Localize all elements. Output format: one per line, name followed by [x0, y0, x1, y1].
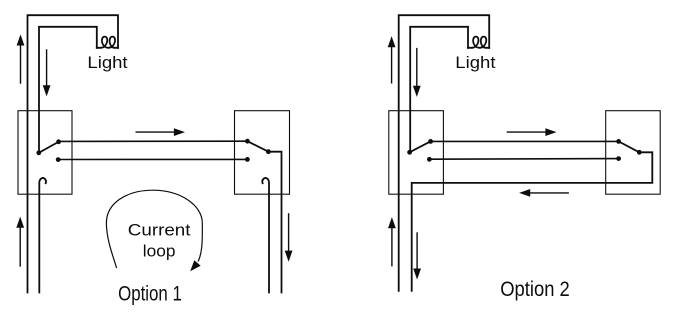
switch SW1 terminal T2 [56, 157, 61, 162]
wire: switched live from SW1 common up to lamp (inner), Option 1 [39, 27, 97, 153]
switch box SW4 [606, 111, 661, 195]
wire: bottom traveller between SW1 and SW2, Option 1 [58, 158, 247, 160]
switch SW1 common pole [36, 150, 41, 155]
switch SW4 terminal T2 [616, 156, 621, 161]
switch box SW2 [235, 111, 290, 195]
switch SW3 terminal T2 [427, 157, 432, 162]
switch SW2 common pole [266, 149, 271, 154]
switch SW3 blade [410, 141, 431, 152]
svg-text:Option 1: Option 1 [118, 283, 182, 306]
arrow: current up beside feed (top left), Option 2 [388, 36, 396, 83]
switch box SW3 [389, 111, 444, 195]
svg-text:Option 2: Option 2 [500, 278, 570, 301]
svg-text:Current: Current [128, 222, 191, 240]
switch SW4 terminal T1 [616, 139, 621, 144]
wire: top traveller between SW1 and SW2, Option 1 [59, 140, 248, 142]
arrow: current left along return wire, Option 2 [519, 189, 568, 197]
arrow: current right along top traveller, Option 2 [507, 128, 556, 136]
switch SW1 terminal T1 [56, 139, 61, 144]
wire: feed conductor up and across to lamp (outer), Option 1 [28, 15, 119, 292]
switch SW3 common pole [407, 150, 412, 155]
wire: spare conductor with hooked end in SW2 box [262, 178, 269, 293]
switch SW2 terminal T1 [245, 139, 250, 144]
switch SW4 blade [619, 141, 640, 152]
svg-text:loop: loop [143, 242, 176, 260]
arrow: current down from lamp (inner), Option 2 [413, 49, 421, 97]
svg-text:Light: Light [87, 54, 128, 72]
arrow: current up into SW3 (bottom left), Option 2 [388, 217, 396, 266]
wire: bottom traveller between SW3 and SW4, Option 2 [429, 158, 618, 161]
switch SW4 common pole [637, 150, 642, 155]
switch SW2 blade [247, 141, 268, 152]
wire: spare conductor with hooked end in SW1 box [39, 178, 46, 293]
arrow: current up into SW1 (bottom left), Option 1 [16, 217, 24, 266]
arrow: current up beside feed (top left), Option 1 [17, 34, 25, 83]
wire: SW4 common return back to SW3 box and down to supply, Option 2 [412, 152, 653, 290]
wire: feed conductor up and across to lamp (outer), Option 2 [399, 15, 490, 291]
wire: switched live from SW3 common up to lamp (inner), Option 2 [410, 27, 468, 152]
current loop arc with arrowhead [106, 190, 202, 271]
wire: top traveller between SW3 and SW4, Option 2 [431, 140, 619, 142]
lamp L1 (coil) [97, 37, 118, 48]
switch SW3 terminal T1 [428, 139, 433, 144]
arrow: current right along top traveller, Option 1 [136, 128, 185, 136]
svg-text:Light: Light [455, 54, 496, 72]
switch SW2 terminal T2 [245, 157, 250, 162]
arrow: current down from SW2 (bottom right), Option 1 [285, 214, 293, 262]
switch SW1 blade [39, 142, 59, 153]
lamp L2 (coil) [468, 37, 489, 48]
wire: SW2 common return down to supply, Option 1 [268, 152, 281, 293]
arrow: current down out of SW3 (bottom), Option 2 [413, 233, 421, 280]
arrow: current down from lamp (inner), Option 1 [43, 50, 51, 96]
switch box SW1 [18, 111, 72, 195]
